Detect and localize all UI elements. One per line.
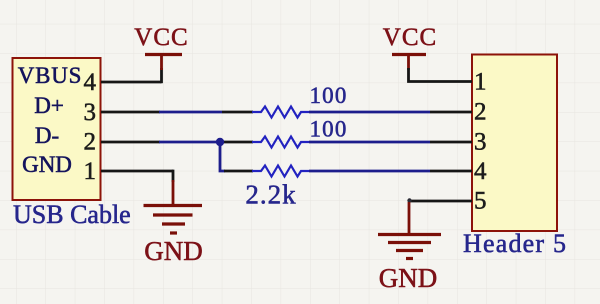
pin 5 number of Header 5	[474, 188, 487, 215]
pin GND (1) of USB Cable	[22, 152, 173, 185]
junction node D- branch	[216, 138, 224, 146]
connector P1 Header 5 body	[472, 55, 557, 232]
svg-text:D+: D+	[34, 93, 64, 118]
pin VBUS (4) of USB Cable	[18, 63, 162, 96]
label Header 5	[463, 229, 567, 258]
wire D- left (net segment)	[159, 141, 253, 144]
power port VCC (left)	[134, 24, 188, 70]
svg-text:VBUS: VBUS	[18, 63, 83, 88]
svg-text:5: 5	[474, 188, 487, 215]
resistor R1 100	[252, 83, 348, 118]
wire branch junction down to 2.2k row	[220, 142, 253, 171]
power port VCC (right)	[383, 24, 437, 70]
svg-text:1: 1	[84, 158, 97, 185]
wire VCC to header pin 1	[409, 68, 473, 82]
pin 2 number of Header 5	[474, 99, 487, 126]
svg-text:VCC: VCC	[383, 24, 437, 51]
svg-text:2.2k: 2.2k	[245, 180, 296, 210]
svg-text:100: 100	[309, 83, 347, 108]
svg-text:VCC: VCC	[134, 24, 188, 51]
svg-text:D-: D-	[35, 123, 59, 148]
resistor R3 2.2k	[245, 166, 309, 210]
wire D+ left (net segment)	[159, 111, 253, 114]
ground symbol GND (right)	[378, 202, 441, 293]
wire D+ right to header pin 2	[309, 111, 472, 114]
pin 1 number of Header 5	[474, 69, 487, 96]
svg-text:4: 4	[474, 158, 487, 185]
svg-text:3: 3	[84, 99, 97, 126]
pin D+ (3) of USB Cable	[34, 93, 160, 126]
svg-text:USB Cable: USB Cable	[13, 200, 131, 229]
svg-text:3: 3	[474, 129, 487, 156]
svg-text:4: 4	[84, 69, 97, 96]
pin 3 number of Header 5	[474, 129, 487, 156]
resistor R2 100	[252, 117, 348, 148]
ground symbol GND (left)	[144, 180, 203, 266]
svg-text:GND: GND	[22, 152, 72, 177]
pin D- (2) of USB Cable	[35, 123, 160, 156]
connector J1 USB Cable body	[13, 58, 101, 200]
pin 4 number of Header 5	[474, 158, 487, 185]
wire VBUS to VCC (vertical riser)	[160, 68, 163, 83]
label USB Cable	[13, 200, 131, 229]
svg-text:GND: GND	[144, 236, 203, 266]
wire D- right to header pin 3	[309, 141, 472, 144]
wire 2.2k right to header pin 4	[309, 170, 472, 173]
svg-text:GND: GND	[379, 263, 438, 293]
svg-text:2: 2	[474, 99, 487, 126]
svg-text:100: 100	[309, 117, 347, 142]
wire GND pin down to ground	[172, 171, 173, 182]
svg-text:1: 1	[474, 69, 487, 96]
svg-text:2: 2	[84, 129, 97, 156]
wire header pin 5 down to ground	[407, 198, 472, 202]
svg-text:Header 5: Header 5	[463, 229, 567, 258]
